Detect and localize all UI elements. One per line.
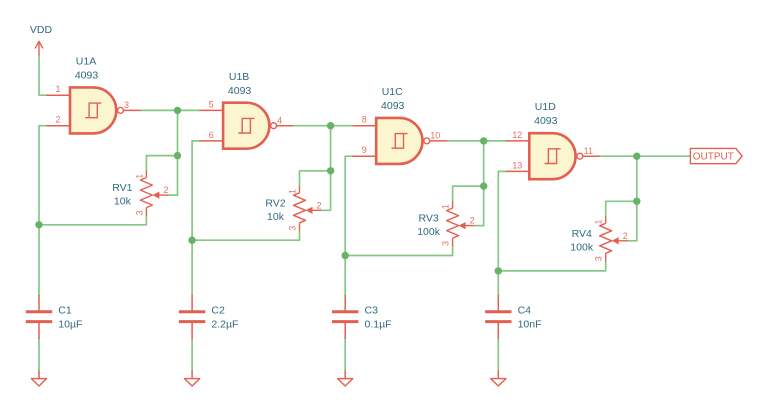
svg-text:2.2µF: 2.2µF	[211, 318, 238, 330]
ground symbol (under C2)	[185, 371, 200, 386]
nand gate U1D	[529, 133, 582, 179]
svg-text:4093: 4093	[534, 115, 558, 127]
pin 12 stub U1D	[506, 140, 529, 142]
potentiometer RV3	[447, 201, 475, 246]
svg-text:10µF: 10µF	[58, 318, 82, 330]
wire C2 to ground	[191, 338, 193, 371]
pin 9 stub U1C	[353, 155, 376, 157]
junction RV4 top	[633, 198, 640, 205]
pin 5 stub U1B	[200, 109, 223, 111]
svg-text:C4: C4	[518, 304, 532, 316]
svg-text:11: 11	[584, 146, 593, 156]
junction RV1 top	[174, 152, 181, 159]
ground symbol (under C4)	[491, 371, 506, 386]
svg-text:100k: 100k	[417, 226, 441, 238]
svg-text:2: 2	[470, 216, 475, 226]
pin 1 stub U1A	[47, 94, 70, 96]
capacitor C3	[332, 296, 358, 339]
wire U1C output to node	[446, 140, 484, 142]
svg-text:RV1: RV1	[112, 182, 132, 194]
svg-text:2: 2	[316, 200, 321, 210]
svg-text:2: 2	[55, 115, 60, 125]
wire U1B bottom input to C2	[192, 141, 200, 296]
pin 6 stub U1B	[200, 140, 223, 142]
pin 2 stub U1A	[47, 125, 70, 127]
svg-text:RV2: RV2	[265, 197, 285, 209]
wire output node down to RV1 wiper	[177, 110, 179, 195]
svg-text:8: 8	[362, 115, 367, 125]
wire to RV4 pin 1	[606, 201, 637, 216]
wire RV2 wiper	[322, 209, 331, 211]
junction feedback node C1	[35, 221, 42, 228]
wire RV2 pin 3 feedback	[192, 231, 299, 240]
svg-text:1: 1	[55, 84, 60, 94]
pin 10 stub U1C	[430, 140, 446, 142]
nand gate U1C	[376, 118, 430, 164]
wire RV3 wiper	[475, 225, 484, 227]
junction output node U1D	[633, 153, 640, 160]
svg-text:5: 5	[209, 99, 214, 109]
junction output node U1A	[174, 107, 181, 114]
svg-text:0.1µF: 0.1µF	[365, 318, 392, 330]
wire output node down to RV4 wiper	[636, 156, 638, 241]
pin 4 stub U1B	[277, 125, 293, 127]
svg-text:1: 1	[134, 174, 144, 179]
svg-text:6: 6	[209, 130, 214, 140]
wire output node down to RV3 wiper	[483, 141, 485, 226]
wire U1A output to node	[140, 109, 178, 111]
wire to RV3 pin 1	[453, 186, 484, 201]
wire RV3 pin 3 feedback	[345, 246, 452, 255]
wire C4 to ground	[497, 338, 499, 371]
ground symbol (under C3)	[338, 371, 353, 386]
svg-text:4093: 4093	[228, 85, 252, 97]
junction RV3 top	[480, 182, 487, 189]
wire U1D output to node	[599, 155, 637, 157]
svg-text:1: 1	[594, 219, 604, 224]
capacitor C2	[179, 296, 205, 339]
svg-text:4: 4	[277, 115, 282, 125]
wire U1B output to node	[293, 125, 331, 127]
svg-text:RV4: RV4	[572, 228, 592, 240]
svg-text:1: 1	[441, 204, 451, 209]
nand gate U1A	[70, 87, 123, 133]
junction output node U1B	[327, 122, 334, 129]
svg-text:4093: 4093	[75, 70, 99, 82]
pin 8 stub U1C	[353, 125, 376, 127]
wire RV1 wiper	[168, 194, 177, 196]
pin 11 stub U1D	[583, 155, 599, 157]
svg-text:U1D: U1D	[535, 101, 556, 113]
nand gate U1B	[223, 103, 276, 149]
wire U1D bottom input to C4	[498, 171, 506, 295]
wire RV4 wiper	[628, 240, 637, 242]
svg-text:2: 2	[623, 231, 628, 241]
wire VDD to U1A pin 1	[39, 55, 47, 95]
potentiometer RV1	[140, 171, 168, 216]
svg-text:2: 2	[163, 185, 168, 195]
wire node to U1B top input	[178, 109, 201, 111]
svg-text:3: 3	[441, 241, 451, 246]
wire U1C bottom input to C3	[345, 156, 353, 295]
wire to RV2 pin 1	[300, 171, 331, 186]
wire to RV1 pin 1	[146, 156, 177, 171]
wire node to OUTPUT flag	[637, 155, 691, 157]
pin 3 stub U1A	[124, 109, 140, 111]
svg-text:10k: 10k	[114, 196, 132, 208]
svg-text:U1B: U1B	[229, 71, 249, 83]
junction feedback node C2	[188, 237, 195, 244]
capacitor C4	[485, 296, 511, 339]
power symbol VDD	[35, 41, 43, 55]
svg-text:3: 3	[594, 256, 604, 261]
svg-text:12: 12	[512, 130, 522, 140]
junction RV2 top	[327, 167, 334, 174]
wire C1 to ground	[38, 338, 40, 371]
potentiometer RV2	[294, 186, 322, 231]
svg-text:1: 1	[287, 189, 297, 194]
svg-text:C1: C1	[58, 304, 72, 316]
wire output node down to RV2 wiper	[330, 126, 332, 211]
svg-text:13: 13	[512, 160, 522, 170]
capacitor C1	[26, 296, 52, 339]
svg-text:9: 9	[362, 145, 367, 155]
wire C3 to ground	[344, 338, 346, 371]
svg-text:OUTPUT: OUTPUT	[693, 152, 734, 163]
svg-text:100k: 100k	[570, 241, 594, 253]
svg-text:3: 3	[134, 210, 144, 215]
junction feedback node C3	[342, 252, 349, 259]
svg-text:10k: 10k	[267, 211, 285, 223]
svg-text:VDD: VDD	[30, 24, 53, 36]
svg-text:U1C: U1C	[382, 86, 403, 98]
junction feedback node C4	[495, 267, 502, 274]
svg-text:3: 3	[124, 100, 129, 110]
pin 13 stub U1D	[506, 170, 529, 172]
svg-text:10: 10	[430, 131, 440, 141]
wire node to U1D top input	[484, 140, 507, 142]
wire RV4 pin 3 feedback	[498, 261, 605, 271]
svg-text:4093: 4093	[381, 100, 405, 112]
svg-text:C2: C2	[211, 304, 225, 316]
svg-text:3: 3	[287, 226, 297, 231]
wire RV1 pin 3 feedback	[39, 216, 146, 225]
net label OUTPUT	[690, 148, 742, 163]
wire node to U1C top input	[331, 125, 354, 127]
svg-text:C3: C3	[365, 304, 379, 316]
svg-text:RV3: RV3	[418, 213, 438, 225]
potentiometer RV4	[600, 216, 628, 261]
svg-text:U1A: U1A	[76, 56, 96, 68]
ground symbol (under C1)	[31, 371, 46, 386]
junction output node U1C	[480, 137, 487, 144]
svg-text:10nF: 10nF	[518, 318, 542, 330]
wire U1A bottom input to C1	[39, 126, 47, 296]
